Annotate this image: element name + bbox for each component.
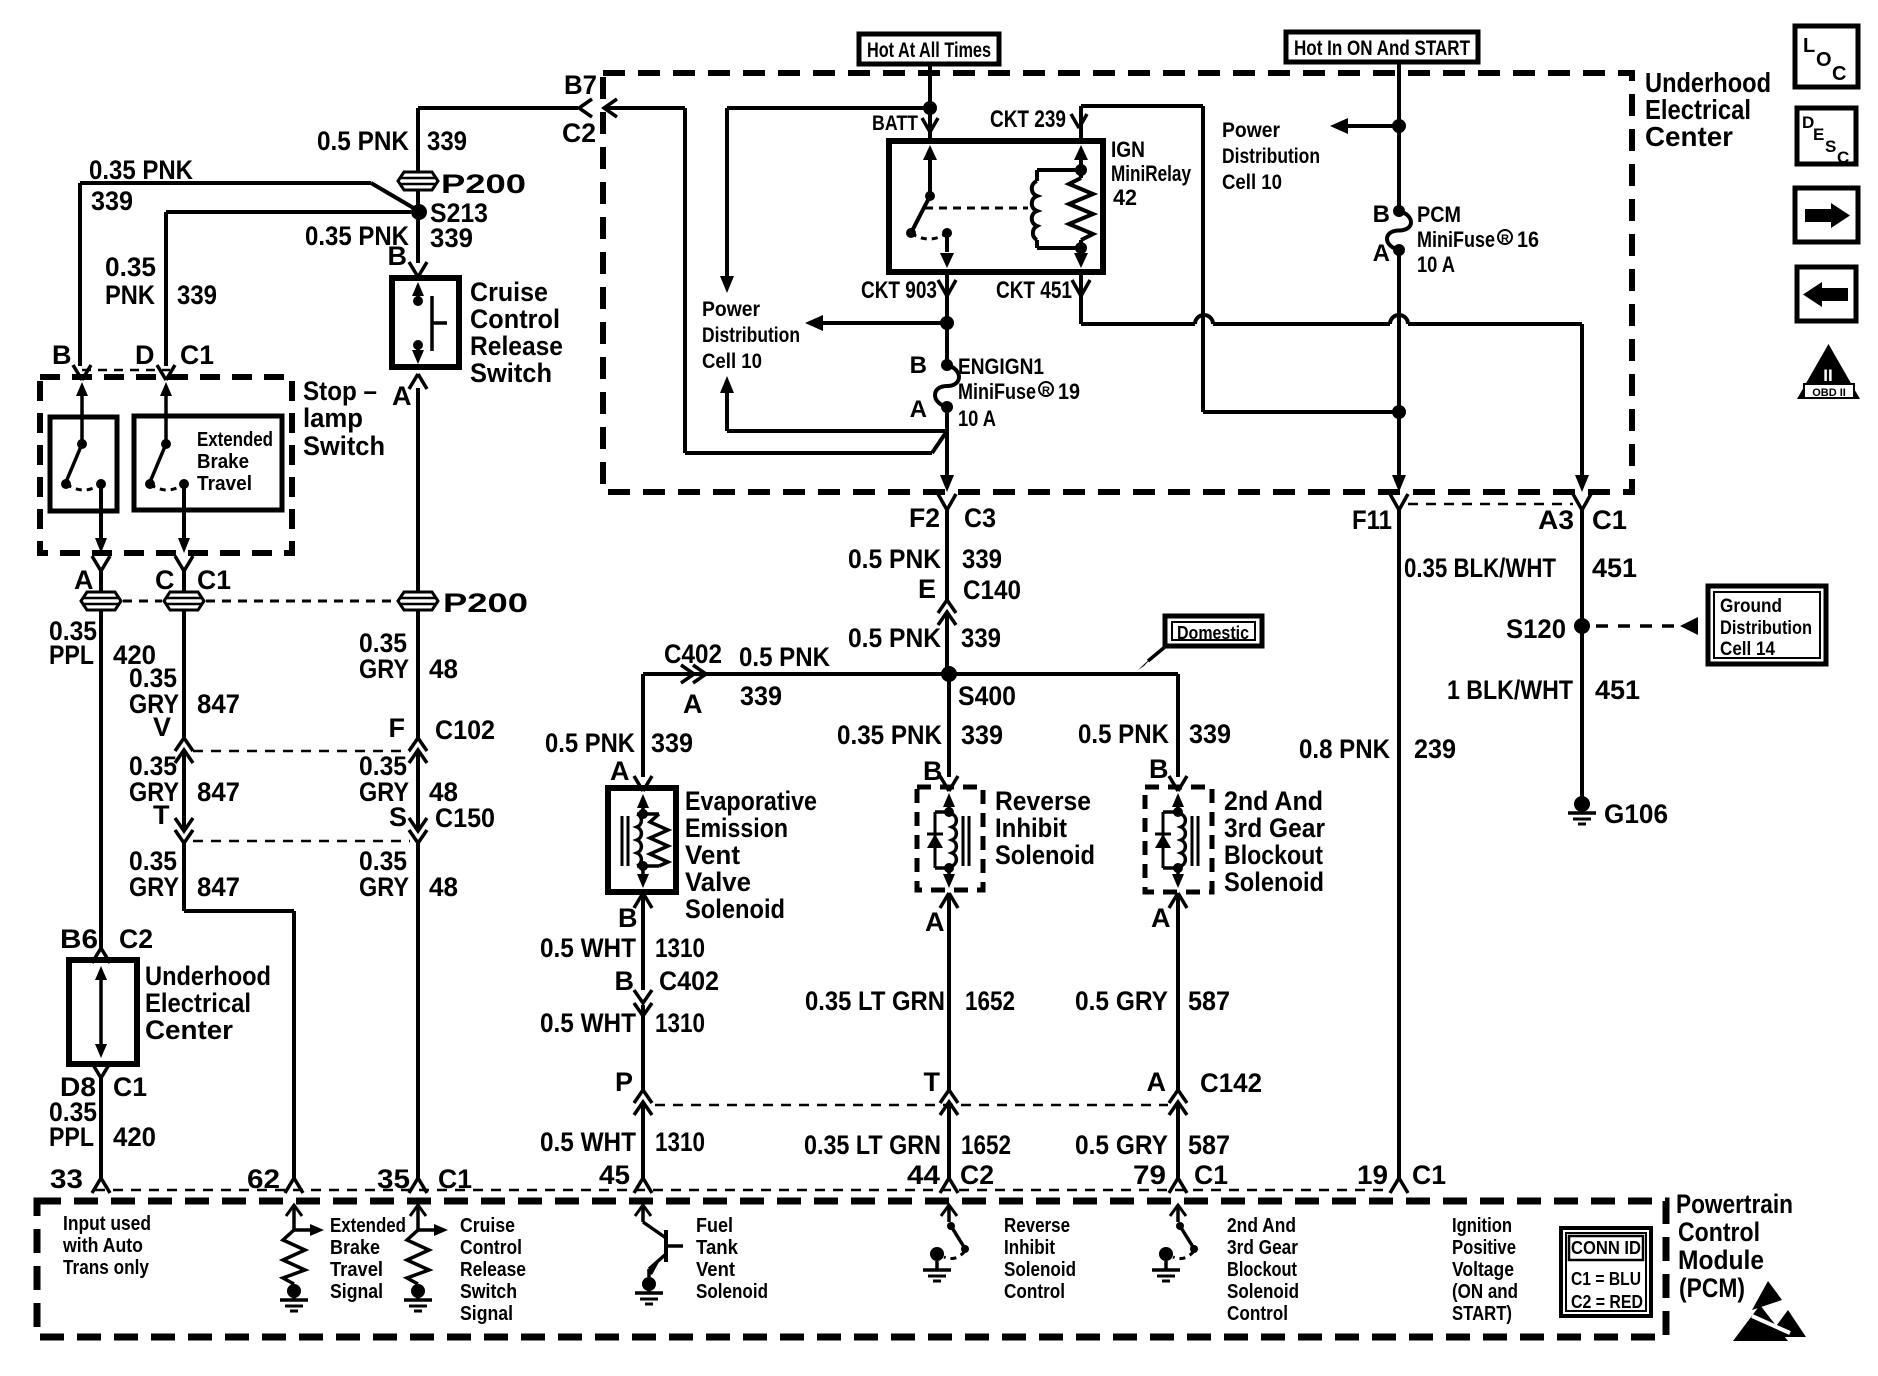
svg-text:847: 847 <box>197 689 240 719</box>
svg-text:Travel: Travel <box>197 473 252 495</box>
svg-text:C150: C150 <box>435 803 495 833</box>
wire S400 down to Reverse Inhibit solenoid <box>947 674 951 777</box>
svg-text:Cell 10: Cell 10 <box>702 350 762 373</box>
svg-text:D: D <box>135 340 155 370</box>
relay switch contacts <box>906 228 916 238</box>
label pin B and C402 (lower connector) <box>615 966 720 996</box>
svg-text:Control: Control <box>460 1237 522 1259</box>
relay actuating dashed link <box>925 207 1028 210</box>
component Underhood Electrical Center (pass-through) box <box>69 960 137 1064</box>
relay switch arm <box>912 196 930 231</box>
svg-text:C402: C402 <box>664 639 722 669</box>
svg-text:Extended: Extended <box>330 1215 406 1237</box>
svg-text:S: S <box>1825 137 1836 156</box>
relay coil output arrow CKT 451 <box>1074 248 1088 268</box>
svg-text:0.5 PNK: 0.5 PNK <box>848 544 941 574</box>
connector stop lamp pin C <box>175 556 193 571</box>
svg-text:Underhood: Underhood <box>145 961 271 991</box>
svg-text:Distribution: Distribution <box>1720 618 1812 639</box>
PCM input 62 Extended Brake Travel Signal <box>280 1205 324 1311</box>
wire 1310 from P to PCM pin 45 <box>641 1102 645 1180</box>
svg-text:Solenoid: Solenoid <box>1004 1259 1076 1281</box>
solenoid L2 Reverse Inhibit Solenoid box (dashed) <box>917 787 983 890</box>
label Reverse Inhibit Solenoid Control <box>1004 1215 1076 1303</box>
svg-text:(PCM): (PCM) <box>1679 1273 1745 1303</box>
wire 48 cruise switch to P200 <box>416 388 420 592</box>
callout box Ground Distribution Cell 14 <box>1708 586 1826 664</box>
wire CKT 239 from relay to PCM fuse column <box>1081 106 1406 419</box>
svg-text:339: 339 <box>961 720 1003 750</box>
label Underhood Electrical Center <box>1645 67 1771 152</box>
svg-text:Cruise: Cruise <box>470 277 548 307</box>
svg-text:Ground: Ground <box>1720 596 1782 617</box>
svg-text:Hot In ON And START: Hot In ON And START <box>1294 37 1470 60</box>
label 0.35 GRY 847 (set 3) <box>129 846 240 902</box>
svg-text:Cruise: Cruise <box>460 1215 515 1237</box>
label 0.5 WHT 1310 (upper) <box>540 933 705 963</box>
svg-text:Blockout: Blockout <box>1227 1259 1297 1281</box>
svg-text:CKT 239: CKT 239 <box>990 106 1066 133</box>
connector PCM pin 33 <box>92 1178 110 1193</box>
connector stop lamp pin D <box>157 365 175 380</box>
svg-text:C1: C1 <box>1194 1160 1228 1190</box>
wire 48 P200 to F <box>416 611 420 738</box>
label 0.5 PNK 339 (F2 segment) <box>848 544 1002 574</box>
svg-text:A: A <box>683 689 703 719</box>
connector F chevrons <box>409 738 427 763</box>
svg-text:Distribution: Distribution <box>702 324 800 347</box>
label 0.35 PNK 339 (feed 2) <box>105 252 217 310</box>
wire 1310 from evap to C402 <box>641 893 645 990</box>
svg-text:Cell 14: Cell 14 <box>1720 639 1775 660</box>
wire branch to Power Distribution Cell 10 (left arrow) <box>805 315 947 331</box>
label 0.35 GRY 847 (set 1) <box>129 663 240 719</box>
label 0.35 BLK/WHT 451 <box>1404 553 1637 583</box>
inline connector P200 leg F (cruise) <box>398 592 438 610</box>
svg-text:Inhibit: Inhibit <box>1004 1237 1055 1259</box>
svg-text:Distribution: Distribution <box>1222 145 1320 168</box>
label Reverse Inhibit Solenoid <box>995 786 1095 870</box>
svg-text:E: E <box>918 574 936 604</box>
connector stop lamp pin A <box>92 556 110 571</box>
svg-text:79: 79 <box>1133 1160 1166 1190</box>
connector C402 inline chevrons <box>634 990 652 1016</box>
svg-text:Switch: Switch <box>303 431 385 461</box>
svg-text:MiniRelay: MiniRelay <box>1111 161 1192 186</box>
svg-text:A: A <box>610 756 630 786</box>
connector reverse pin B <box>940 776 958 791</box>
stop lamp contact box 1 <box>50 417 117 511</box>
label Cruise Control Release Switch Signal <box>460 1215 526 1325</box>
svg-text:C: C <box>1837 148 1849 167</box>
svg-text:0.35 LT GRN: 0.35 LT GRN <box>805 986 945 1016</box>
svg-text:GRY: GRY <box>359 654 409 684</box>
svg-text:B: B <box>1373 201 1390 228</box>
label 0.5 PNK 339 (C402 wire) <box>739 642 830 711</box>
evap solenoid internals <box>622 794 668 888</box>
connector C142 chevrons <box>1169 1090 1187 1115</box>
svg-text:48: 48 <box>429 654 458 684</box>
relay coil top tie <box>1037 164 1087 176</box>
svg-text:Control: Control <box>470 304 560 334</box>
svg-text:B: B <box>1149 754 1169 784</box>
svg-text:0.8 PNK: 0.8 PNK <box>1299 734 1390 764</box>
wire Power Distribution arrow down (top left) <box>720 108 734 293</box>
fuse ENGIGN1 MiniFuse 19 10A <box>935 359 959 413</box>
svg-text:C402: C402 <box>659 966 719 996</box>
svg-text:V: V <box>153 712 171 742</box>
label pin S C150 <box>389 802 495 833</box>
svg-text:339: 339 <box>91 186 133 216</box>
icon back arrow box <box>1797 267 1856 321</box>
svg-text:Electrical: Electrical <box>145 988 251 1018</box>
wire 48 S to PCM pin 35 <box>416 843 420 1180</box>
svg-text:44: 44 <box>907 1160 940 1190</box>
svg-text:S: S <box>389 802 407 832</box>
svg-text:G106: G106 <box>1604 799 1668 829</box>
svg-text:0.35 LT GRN: 0.35 LT GRN <box>804 1130 941 1160</box>
connector evap pin B <box>634 893 652 908</box>
svg-text:MiniFuse: MiniFuse <box>958 379 1036 404</box>
svg-text:(ON and: (ON and <box>1452 1281 1518 1303</box>
svg-text:Release: Release <box>470 331 563 361</box>
connector PCM pin 62 <box>285 1178 303 1193</box>
svg-text:C2: C2 <box>119 924 153 954</box>
svg-text:Solenoid: Solenoid <box>1224 867 1324 897</box>
inline dashed connector row B-D <box>82 369 170 372</box>
label 2nd And 3rd Gear Blockout Solenoid Control <box>1227 1215 1299 1325</box>
svg-text:10 A: 10 A <box>958 406 996 431</box>
Powertrain Control Module boundary (dashed) <box>37 1201 1666 1337</box>
wire stop lamp output 2 <box>178 484 190 553</box>
svg-text:Powertrain: Powertrain <box>1676 1189 1793 1219</box>
ESD notice triangles <box>1733 1281 1806 1341</box>
switch SW2 Stop-lamp Switch boundary (dashed) <box>40 377 292 553</box>
svg-text:3rd Gear: 3rd Gear <box>1224 813 1325 843</box>
svg-text:0.5 PNK: 0.5 PNK <box>545 728 635 758</box>
svg-text:GRY: GRY <box>129 872 179 902</box>
connector PCM pin 45 <box>634 1178 652 1193</box>
label 0.5 PNK 339 (C140 segment) <box>848 623 1001 653</box>
svg-text:0.35 PNK: 0.35 PNK <box>837 720 942 750</box>
relay switch pivot <box>925 191 935 201</box>
wire 420 from P200 to B6 <box>99 610 103 948</box>
connector F11 <box>1390 494 1408 510</box>
inline connector dashed row (P-T-C142) <box>655 1104 1168 1107</box>
label 79 C1 <box>1133 1160 1228 1190</box>
svg-text:0.35 BLK/WHT: 0.35 BLK/WHT <box>1404 553 1556 583</box>
svg-text:339: 339 <box>740 681 782 711</box>
svg-text:10 A: 10 A <box>1417 252 1455 277</box>
svg-text:ENGIGN1: ENGIGN1 <box>958 354 1044 379</box>
connector S chevrons (down) <box>409 818 427 843</box>
svg-text:Input used: Input used <box>63 1213 151 1235</box>
stop lamp switch 2 internals <box>145 382 189 490</box>
svg-text:42: 42 <box>1113 185 1137 210</box>
wire stop lamp feed 1 (0.35 PNK 339) <box>80 183 417 366</box>
svg-text:Ignition: Ignition <box>1452 1215 1512 1237</box>
inline dashed connector row F11-A3 <box>1408 503 1573 506</box>
svg-text:C1: C1 <box>197 565 231 595</box>
splice S400 <box>941 666 957 682</box>
svg-text:R: R <box>1501 233 1509 245</box>
inline dashed PCM connector row <box>95 1189 1392 1192</box>
label B6 C2 <box>60 924 153 954</box>
svg-text:Vent: Vent <box>696 1259 735 1281</box>
svg-text:lamp: lamp <box>303 403 363 433</box>
svg-text:19: 19 <box>1058 379 1080 404</box>
inline connector P200 leg A <box>81 592 121 610</box>
wire 1310 from C402 to pin P <box>641 1005 645 1092</box>
relay switch contact dashed arc <box>911 233 947 239</box>
svg-text:Signal: Signal <box>330 1281 383 1303</box>
wire S400 branch left to C402 <box>643 674 943 777</box>
svg-text:OBD II: OBD II <box>1812 387 1846 399</box>
icon forward arrow box <box>1795 188 1858 242</box>
connector cruise pin B <box>409 262 427 277</box>
svg-text:1652: 1652 <box>961 1130 1011 1160</box>
svg-text:C102: C102 <box>435 715 495 745</box>
svg-text:Evaporative: Evaporative <box>685 786 817 816</box>
svg-text:Inhibit: Inhibit <box>995 813 1067 843</box>
svg-text:339: 339 <box>427 126 467 156</box>
svg-text:847: 847 <box>197 777 240 807</box>
connector BATT terminal <box>922 118 938 132</box>
wire CKT 451 to A3 with hops <box>1081 272 1589 492</box>
connector pin P chevrons <box>634 1090 652 1115</box>
svg-text:339: 339 <box>430 223 473 253</box>
svg-text:Solenoid: Solenoid <box>1227 1281 1299 1303</box>
svg-text:T: T <box>153 800 170 830</box>
wire branch to Power Distribution (right arrow) <box>1330 118 1399 134</box>
inline connector P200 leg C <box>164 592 204 610</box>
connector PCM pin 35 <box>409 1178 427 1193</box>
svg-text:339: 339 <box>961 623 1001 653</box>
wire 339 P200 to B7 (top segment) <box>416 108 420 172</box>
label 0.35 GRY 48 (set 2) <box>359 751 458 807</box>
cruise switch internals <box>412 282 447 364</box>
svg-text:0.5 WHT: 0.5 WHT <box>540 1127 636 1157</box>
label 1 BLK/WHT 451 <box>1447 675 1640 705</box>
wire 451 from S120 to G106 <box>1580 626 1584 798</box>
wire 847 from P200 to V <box>182 610 186 738</box>
label 0.35 PNK 339 (feed 1) <box>89 155 193 216</box>
svg-text:587: 587 <box>1188 986 1230 1016</box>
svg-text:A3: A3 <box>1538 505 1574 535</box>
label PCM MiniFuse 16 10 A <box>1417 202 1539 277</box>
svg-text:339: 339 <box>1189 719 1231 749</box>
svg-text:339: 339 <box>177 280 217 310</box>
svg-text:Valve: Valve <box>685 867 751 897</box>
svg-text:B: B <box>910 352 927 379</box>
svg-text:R: R <box>1042 385 1050 397</box>
svg-text:Power: Power <box>702 298 760 321</box>
svg-text:A: A <box>925 907 945 937</box>
connector PCM pin 19 <box>1390 1178 1408 1193</box>
svg-text:A: A <box>1151 903 1171 933</box>
svg-text:B: B <box>615 966 635 996</box>
label 0.5 GRY 587 (upper) <box>1075 986 1230 1016</box>
splice S213 <box>411 204 427 220</box>
label Powertrain Control Module (PCM) <box>1676 1189 1793 1303</box>
svg-text:C2: C2 <box>562 118 596 148</box>
svg-text:Switch: Switch <box>460 1281 517 1303</box>
label 0.35 LT GRN 1652 (lower) <box>804 1130 1011 1160</box>
relay switch output wire and arrow <box>940 233 954 268</box>
connector B7/C2 chevrons <box>418 99 617 117</box>
svg-text:1310: 1310 <box>655 933 705 963</box>
connector A3 C1 <box>1573 494 1591 510</box>
label 19 C1 <box>1357 1160 1446 1190</box>
PCM driver Q1 Fuel Tank Vent Solenoid <box>635 1205 683 1304</box>
label Cruise Control Release Switch <box>470 277 563 388</box>
wire CKT 903 vertical <box>940 272 954 365</box>
svg-text:16: 16 <box>1517 227 1539 252</box>
inline dashed connector row T-S (C150) <box>193 840 410 843</box>
inline dashed connector row V-F (C102) <box>193 750 410 753</box>
callout box Domestic <box>1165 616 1262 646</box>
dashed reference link to Ground Distribution <box>1596 617 1698 635</box>
svg-text:PPL: PPL <box>49 1122 94 1152</box>
svg-text:Reverse: Reverse <box>995 786 1091 816</box>
wire S400 branch right to 2nd-3rd solenoid <box>955 674 1178 777</box>
wire 847 from T to PCM pin 62 (jog) <box>184 843 294 1180</box>
stop lamp contact box 2 (Extended Brake Travel) <box>134 416 282 510</box>
wire 420 from D8 to PCM pin 33 <box>99 1078 103 1180</box>
svg-text:GRY: GRY <box>359 872 409 902</box>
svg-text:Center: Center <box>1645 121 1733 152</box>
label Fuel Tank Vent Solenoid <box>696 1215 768 1303</box>
svg-text:C1: C1 <box>1592 505 1627 535</box>
svg-text:C140: C140 <box>963 575 1021 605</box>
svg-text:Solenoid: Solenoid <box>995 840 1095 870</box>
connector pin T chevrons <box>940 1090 958 1115</box>
svg-text:0.5 PNK: 0.5 PNK <box>317 126 409 156</box>
svg-text:Cell 10: Cell 10 <box>1222 171 1282 194</box>
label 0.5 PNK 339 (top) <box>317 126 467 156</box>
label 0.5 WHT 1310 (middle) <box>540 1008 705 1038</box>
wire 1652 from reverse to pin T <box>947 893 951 1092</box>
wire C leg to P200 <box>182 571 186 592</box>
blockout solenoid internals <box>1155 793 1198 888</box>
connector CKT 451 <box>1072 280 1090 296</box>
svg-text:2nd And: 2nd And <box>1224 786 1323 816</box>
wire stop lamp feed 2 (0.35 PNK 339) <box>166 212 411 366</box>
label 0.5 GRY 587 (lower) <box>1075 1130 1230 1160</box>
solenoid L1 Evaporative Emission Vent Valve Solenoid box <box>608 788 676 892</box>
svg-text:P200: P200 <box>443 588 528 618</box>
wire 587 from C142 to PCM pin 79 <box>1176 1102 1180 1180</box>
svg-text:Brake: Brake <box>330 1237 380 1259</box>
wire fuse A output down with branches <box>940 407 954 492</box>
svg-text:II: II <box>1823 366 1832 385</box>
svg-text:C1 = BLU: C1 = BLU <box>1571 1269 1641 1289</box>
svg-text:0.5 GRY: 0.5 GRY <box>1075 1130 1168 1160</box>
svg-text:2nd And: 2nd And <box>1227 1215 1296 1237</box>
svg-text:C1: C1 <box>180 340 214 370</box>
label 2nd And 3rd Gear Blockout Solenoid <box>1224 786 1325 897</box>
inline connector P200 (cruise column) <box>398 172 438 190</box>
svg-text:339: 339 <box>962 544 1002 574</box>
wire 48 F to S <box>416 750 420 828</box>
connector F2 C3 <box>938 494 956 510</box>
relay resistor <box>1069 170 1093 248</box>
svg-text:847: 847 <box>197 872 240 902</box>
PCM switch Reverse Inhibit Solenoid Control <box>923 1205 969 1281</box>
svg-text:B: B <box>52 340 72 370</box>
svg-text:Hot At All Times: Hot At All Times <box>867 39 991 62</box>
svg-text:MiniFuse: MiniFuse <box>1417 227 1495 252</box>
svg-text:Switch: Switch <box>470 358 552 388</box>
svg-text:S120: S120 <box>1506 614 1566 644</box>
svg-text:F11: F11 <box>1352 505 1392 535</box>
wire PCM fuse output to F11 <box>1392 250 1406 492</box>
label Evaporative Emission Vent Valve Solenoid <box>685 786 817 924</box>
svg-text:Module: Module <box>1678 1245 1764 1275</box>
wire from BATT junction to arrow column <box>727 106 930 110</box>
connector PCM pin 79 <box>1169 1178 1187 1193</box>
dashed connector row P200 <box>123 600 396 603</box>
underhood pass-through internals <box>95 966 107 1058</box>
icon DESC box <box>1797 108 1856 167</box>
icon OBD II triangle <box>1797 344 1860 399</box>
relay coil bottom tie <box>1037 242 1087 254</box>
wire stop lamp output 1 <box>95 484 107 553</box>
svg-text:B6: B6 <box>60 924 98 954</box>
svg-text:C: C <box>1832 63 1846 85</box>
svg-text:CONN ID: CONN ID <box>1571 1238 1641 1258</box>
svg-text:Release: Release <box>460 1259 526 1281</box>
svg-text:0.5 WHT: 0.5 WHT <box>540 933 636 963</box>
svg-text:0.5 PNK: 0.5 PNK <box>739 642 830 672</box>
svg-text:P: P <box>615 1067 633 1097</box>
reverse solenoid internals <box>927 793 969 888</box>
wire Hot In ON And START feed down <box>1392 62 1406 211</box>
svg-text:Vent: Vent <box>685 840 740 870</box>
svg-text:Brake: Brake <box>197 451 249 473</box>
svg-text:B: B <box>618 903 638 933</box>
label Input used with Auto Trans only <box>62 1213 151 1279</box>
wire 339 from F2 to C140 <box>945 510 949 602</box>
connector D8 C1 <box>92 1063 110 1078</box>
svg-text:O: O <box>1816 49 1832 71</box>
icon LOC box <box>1795 26 1858 87</box>
label 0.35 PPL 420 (upper) <box>49 616 156 670</box>
svg-text:1 BLK/WHT: 1 BLK/WHT <box>1447 675 1573 705</box>
svg-text:Solenoid: Solenoid <box>696 1281 768 1303</box>
connector stop lamp pin B <box>73 365 91 380</box>
svg-text:F2: F2 <box>909 503 940 533</box>
PCM switch 2nd And 3rd Gear Blockout Solenoid Control <box>1152 1205 1198 1281</box>
label pin F C102 <box>389 713 496 745</box>
ground G106 <box>1568 796 1596 824</box>
svg-text:A: A <box>392 381 412 411</box>
svg-text:Emission: Emission <box>685 813 788 843</box>
svg-text:Center: Center <box>145 1015 233 1045</box>
svg-text:0.5 PNK: 0.5 PNK <box>848 623 941 653</box>
wire 239 from F11 to PCM pin 19 <box>1397 510 1401 1180</box>
label D8 C1 <box>60 1072 147 1102</box>
switch SW1 Cruise Control Release Switch box <box>392 278 459 367</box>
svg-text:0.35 PNK: 0.35 PNK <box>89 155 193 185</box>
svg-text:C1: C1 <box>1412 1160 1446 1190</box>
svg-text:START): START) <box>1452 1303 1512 1325</box>
callout arrow Domestic <box>1138 646 1166 670</box>
svg-text:C3: C3 <box>964 503 996 533</box>
svg-text:45: 45 <box>599 1160 630 1190</box>
connector PCM pin 44 <box>940 1178 958 1193</box>
svg-text:1310: 1310 <box>655 1127 705 1157</box>
